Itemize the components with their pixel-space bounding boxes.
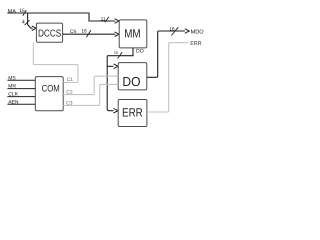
- svg-text:4: 4: [22, 19, 25, 25]
- arrowhead into DO: [114, 64, 118, 69]
- wire AEN: [7, 103, 35, 105]
- wire ERR output (gray): [147, 43, 188, 112]
- svg-text:16: 16: [169, 26, 175, 32]
- wire CLK: [7, 96, 35, 98]
- arrowhead into MM (CS input): [115, 32, 119, 37]
- svg-text:DO: DO: [122, 74, 140, 89]
- arrowhead MDO: [185, 29, 189, 34]
- svg-text:ERR: ERR: [190, 41, 201, 47]
- bus slash 16 (CS): [86, 30, 91, 37]
- svg-text:COM: COM: [42, 84, 60, 95]
- wire MM bottom output to DO and ERR (feed line): [107, 48, 133, 111]
- svg-text:DCCS: DCCS: [38, 28, 62, 39]
- svg-text:DO: DO: [136, 49, 144, 55]
- svg-text:MDO: MDO: [191, 30, 205, 36]
- svg-text:16: 16: [114, 50, 119, 55]
- bus slash 16 (MDO): [171, 27, 178, 35]
- svg-text:ERR: ERR: [122, 106, 143, 120]
- bus slash 15: [23, 10, 27, 16]
- svg-text:MM: MM: [124, 27, 140, 41]
- bus slash 4: [25, 20, 30, 25]
- svg-text:16: 16: [81, 29, 87, 35]
- wire C2 (gray) to DO: [63, 76, 118, 94]
- wire DO output to MDO: [147, 31, 185, 77]
- box MM: [119, 20, 147, 48]
- svg-text:CS: CS: [70, 29, 77, 35]
- box COM: [35, 77, 63, 111]
- wire MS: [7, 79, 35, 81]
- wire branch arrow into DO: [107, 65, 113, 67]
- arrowhead into ERR: [114, 108, 118, 113]
- wire MA bus horizontal: [7, 13, 115, 21]
- svg-text:MA: MA: [8, 9, 17, 15]
- bus slash (DO feed): [118, 52, 123, 59]
- wire C1 (gray) to DCCS bottom: [33, 43, 78, 83]
- box DCCS: [36, 23, 62, 42]
- bus slash 11: [105, 17, 109, 23]
- box DO: [118, 63, 147, 90]
- arrowhead into MM (top input): [115, 19, 119, 24]
- arrowhead into DCCS: [32, 26, 36, 31]
- wire branch to DCCS: [28, 13, 33, 28]
- wire C3 (gray) to DO: [63, 84, 118, 105]
- wire CS from DCCS to MM: [63, 33, 115, 35]
- wire MR: [7, 88, 35, 90]
- box ERR: [118, 100, 147, 127]
